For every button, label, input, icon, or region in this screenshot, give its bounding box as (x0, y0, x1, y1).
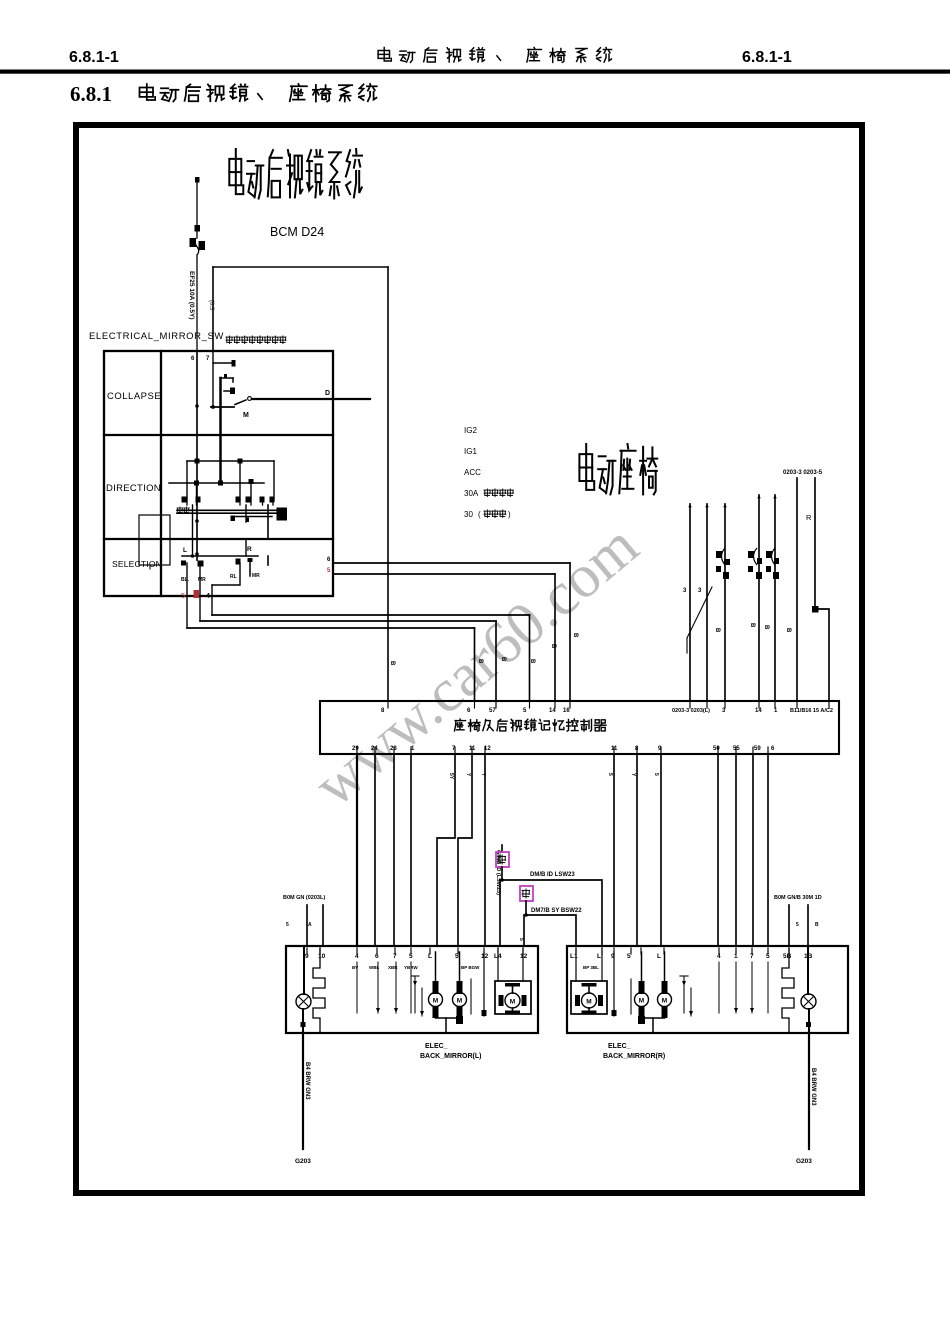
svg-text:BACK_MIRROR(R): BACK_MIRROR(R) (603, 1053, 665, 1060)
svg-text:ELEC_: ELEC_ (425, 1043, 448, 1050)
svg-text:B: B (550, 644, 556, 649)
svg-text:COLLAPSE: COLLAPSE (107, 391, 161, 402)
svg-text:BL.: BL. (181, 577, 190, 583)
svg-text:Y: Y (630, 773, 636, 777)
svg-text:5: 5 (518, 938, 524, 941)
svg-text:14: 14 (755, 708, 762, 714)
svg-text:B: B (749, 623, 755, 628)
svg-text:55: 55 (733, 746, 740, 752)
svg-text:30: 30 (464, 510, 473, 519)
svg-text:DM/B ID LSW23: DM/B ID LSW23 (530, 872, 575, 878)
svg-text:5: 5 (796, 922, 799, 928)
svg-text:B: B (500, 657, 506, 662)
svg-text:M: M (639, 998, 644, 1005)
svg-text:B: B (529, 659, 535, 664)
svg-text:12: 12 (520, 953, 528, 960)
svg-text:5: 5 (523, 708, 527, 714)
svg-text:XBR: XBR (388, 965, 398, 970)
svg-text:5: 5 (607, 773, 613, 776)
svg-text:7: 7 (750, 953, 754, 960)
svg-text:6.8.1: 6.8.1 (70, 82, 112, 106)
svg-text:L1: L1 (570, 953, 578, 960)
svg-text:5: 5 (286, 922, 289, 928)
svg-text:R: R (247, 546, 252, 553)
svg-text:0203-3 0203-5: 0203-3 0203-5 (783, 470, 823, 476)
svg-text:5: 5 (327, 568, 331, 574)
svg-text:B11/B16 15 A/C2: B11/B16 15 A/C2 (790, 708, 833, 714)
svg-text:29: 29 (352, 746, 359, 752)
svg-text:B: B (572, 633, 578, 638)
svg-text:3: 3 (698, 588, 702, 594)
svg-text:IG1: IG1 (464, 447, 477, 456)
svg-text:M: M (243, 412, 249, 419)
svg-text:IG2: IG2 (464, 426, 477, 435)
svg-text:G203: G203 (796, 1158, 812, 1165)
svg-text:5: 5 (653, 773, 659, 776)
svg-text:MR: MR (198, 577, 206, 583)
svg-text:BACK_MIRROR(L): BACK_MIRROR(L) (420, 1053, 481, 1060)
svg-text:B: B (785, 628, 791, 633)
svg-text:L: L (183, 547, 187, 554)
svg-text:8: 8 (635, 746, 639, 752)
svg-text:5: 5 (627, 953, 631, 960)
svg-text:): ) (508, 510, 511, 519)
svg-text:30A: 30A (464, 489, 479, 498)
svg-text:16: 16 (563, 708, 570, 714)
svg-text:1: 1 (774, 708, 778, 714)
svg-text:B: B (477, 659, 483, 664)
svg-text:M: M (457, 998, 462, 1005)
svg-text:6: 6 (191, 356, 195, 362)
svg-text:5B: 5B (783, 953, 792, 960)
svg-text:1: 1 (734, 953, 738, 960)
svg-text:ELEC_: ELEC_ (608, 1043, 631, 1050)
svg-text:4: 4 (206, 593, 210, 600)
svg-text:M: M (433, 998, 438, 1005)
svg-text:B0M GN (0203L): B0M GN (0203L) (283, 895, 325, 901)
svg-text:10: 10 (318, 953, 326, 960)
svg-text:B: B (815, 922, 819, 928)
svg-text:3: 3 (683, 588, 687, 594)
svg-text:6: 6 (771, 746, 775, 752)
svg-text:BCM D24: BCM D24 (270, 225, 324, 239)
svg-text:L: L (597, 953, 601, 960)
svg-text:50: 50 (713, 746, 720, 752)
svg-text:B: B (763, 625, 769, 630)
svg-text:12: 12 (484, 746, 491, 752)
svg-text:L: L (657, 953, 661, 960)
svg-text:B4 BRW GN3: B4 BRW GN3 (304, 1062, 310, 1100)
svg-text:28: 28 (390, 746, 397, 752)
svg-text:Y: Y (465, 773, 471, 777)
svg-text:B4 BRW GN3: B4 BRW GN3 (810, 1068, 816, 1106)
svg-text:M: M (586, 999, 591, 1006)
svg-text:5: 5 (181, 591, 185, 600)
svg-text:24: 24 (371, 746, 378, 752)
svg-text:DIRECTION: DIRECTION (106, 483, 161, 494)
svg-text:6.8.1-1: 6.8.1-1 (69, 49, 119, 66)
svg-text:D: D (325, 390, 330, 397)
svg-text:B: B (714, 628, 720, 633)
svg-text:6: 6 (327, 557, 331, 563)
svg-text:RL: RL (230, 574, 237, 580)
svg-text:5: 5 (766, 953, 770, 960)
svg-text:G203: G203 (295, 1158, 311, 1165)
svg-text:0203-3 0203(L): 0203-3 0203(L) (672, 708, 710, 714)
svg-text:5Y: 5Y (448, 773, 454, 780)
svg-text:MR: MR (252, 573, 260, 579)
svg-text:3: 3 (722, 708, 726, 714)
svg-text:BP BGW: BP BGW (461, 965, 480, 970)
svg-text:A: A (308, 922, 312, 928)
svg-text:11: 11 (469, 746, 476, 752)
svg-text:R: R (806, 513, 812, 522)
svg-text:www.car60.com: www.car60.com (302, 512, 651, 820)
svg-text:11: 11 (611, 746, 618, 752)
svg-text:EF25 10A (0.5Y): EF25 10A (0.5Y) (188, 271, 195, 320)
svg-text:14: 14 (549, 708, 556, 714)
svg-text:BP 3BL: BP 3BL (583, 965, 599, 970)
svg-text:7: 7 (206, 356, 210, 362)
svg-text:(: ( (478, 510, 481, 519)
svg-text:DM7/B SY BSW22: DM7/B SY BSW22 (531, 908, 582, 914)
svg-text:6.8.1-1: 6.8.1-1 (742, 49, 792, 66)
svg-text:12: 12 (481, 953, 489, 960)
svg-text:59: 59 (754, 746, 761, 752)
svg-text:M: M (662, 998, 667, 1005)
svg-text:4: 4 (717, 953, 721, 960)
svg-text:M: M (510, 999, 515, 1006)
svg-text:57: 57 (489, 708, 496, 714)
svg-text:SELECTION: SELECTION (112, 559, 162, 569)
svg-text:ACC: ACC (464, 468, 481, 477)
svg-text:ELECTRICAL_MIRROR_SW: ELECTRICAL_MIRROR_SW (89, 331, 224, 342)
svg-text:B: B (389, 661, 395, 666)
svg-text:B0M GN/B 30M 1D: B0M GN/B 30M 1D (774, 895, 822, 901)
